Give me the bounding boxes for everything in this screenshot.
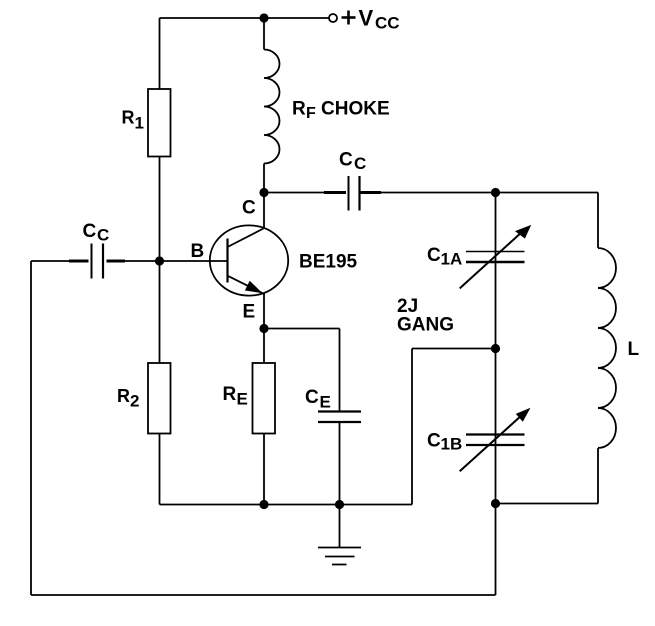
- label 2J GANG: [397, 296, 454, 336]
- svg-text:C: C: [339, 150, 353, 171]
- svg-text:F: F: [306, 105, 316, 122]
- capacitor C1A variable: [460, 225, 532, 289]
- svg-text:C: C: [242, 198, 256, 219]
- svg-text:R: R: [122, 108, 135, 128]
- capacitor C1B variable: [460, 408, 531, 472]
- label VCC: [359, 6, 400, 33]
- wire choke bottom lead: [263, 164, 265, 193]
- node base junction: [155, 256, 164, 265]
- svg-text:CC: CC: [375, 14, 400, 33]
- wire R1 bottom to base node: [159, 157, 161, 262]
- node tank bottom junction: [491, 499, 500, 508]
- transistor Q1 BE195: [210, 225, 288, 295]
- resistor R2: [148, 363, 171, 434]
- svg-text:R: R: [117, 386, 130, 406]
- ground: [318, 548, 361, 565]
- wire top horizontal from R1 to Vcc terminal: [160, 17, 330, 19]
- wire choke top lead: [263, 18, 265, 50]
- svg-text:C: C: [83, 221, 97, 242]
- capacitor CC left (base coupling): [31, 244, 228, 279]
- wire gang branch vertical: [495, 193, 497, 504]
- svg-text:CHOKE: CHOKE: [321, 99, 390, 120]
- resistor RE: [253, 363, 276, 434]
- svg-text:1A: 1A: [441, 250, 463, 269]
- svg-text:B: B: [191, 241, 205, 262]
- node emitter junction: [259, 324, 268, 333]
- svg-text:R: R: [292, 99, 306, 120]
- svg-text:V: V: [359, 6, 374, 31]
- label R1: [122, 108, 144, 133]
- wire RE bottom lead: [263, 434, 265, 505]
- Vcc open terminal circle: [329, 14, 337, 22]
- node ground rail junction: [335, 500, 344, 509]
- svg-text:R: R: [223, 384, 237, 405]
- node gang mid junction: [491, 344, 500, 353]
- wire feedback right vertical: [495, 504, 497, 596]
- wire emitter node to RE: [263, 329, 265, 364]
- wire bottom ground rail: [160, 504, 413, 506]
- node collector junction: [259, 188, 268, 197]
- svg-text:E: E: [243, 302, 256, 323]
- wire emitter to CE branch: [264, 328, 340, 330]
- svg-text:1B: 1B: [441, 435, 463, 454]
- plus sign: [342, 11, 356, 25]
- svg-text:2: 2: [130, 392, 139, 411]
- wire CE top lead: [339, 329, 341, 412]
- svg-text:C: C: [427, 245, 441, 266]
- svg-text:C: C: [354, 154, 366, 173]
- wire collector lead: [263, 193, 265, 229]
- node tank top junction: [491, 188, 500, 197]
- label R2: [117, 386, 139, 411]
- wire ground stem: [339, 505, 341, 548]
- svg-text:GANG: GANG: [397, 315, 454, 336]
- wire feedback left vertical: [30, 261, 32, 595]
- capacitor CC top (output coupling): [264, 176, 598, 211]
- svg-text:C: C: [97, 226, 109, 245]
- label C1A: [427, 245, 462, 269]
- label C1B: [427, 431, 462, 454]
- label CE: [305, 387, 331, 412]
- wire mid tap vertical: [411, 349, 413, 505]
- wire feedback bottom horizontal: [31, 594, 496, 596]
- capacitor CE: [318, 412, 361, 423]
- wire CE bottom lead: [339, 423, 341, 505]
- label CC left: [83, 221, 110, 245]
- node RE rail junction: [259, 500, 268, 509]
- wire base node down to R2: [159, 261, 161, 363]
- label CC top: [339, 150, 366, 174]
- label RF CHOKE: [292, 99, 390, 123]
- node top junction: [259, 13, 268, 22]
- label RE: [223, 384, 248, 409]
- svg-text:L: L: [628, 339, 640, 360]
- svg-text:BE195: BE195: [299, 252, 358, 273]
- wire tank bottom to L: [496, 503, 599, 505]
- wire mid tap horizontal: [412, 348, 496, 350]
- wire L top lead: [597, 193, 599, 249]
- svg-text:E: E: [320, 393, 331, 412]
- inductor L: [598, 248, 616, 448]
- svg-text:E: E: [237, 390, 248, 409]
- wire L bottom lead: [597, 448, 599, 504]
- resistor R1: [148, 89, 171, 157]
- wire R2 bottom lead: [159, 434, 161, 505]
- wire emitter lead down: [263, 294, 265, 329]
- svg-text:C: C: [305, 387, 319, 408]
- svg-text:C: C: [427, 431, 441, 452]
- wire R1 top lead: [159, 18, 161, 89]
- inductor RF choke: [264, 50, 280, 164]
- svg-text:1: 1: [135, 114, 144, 133]
